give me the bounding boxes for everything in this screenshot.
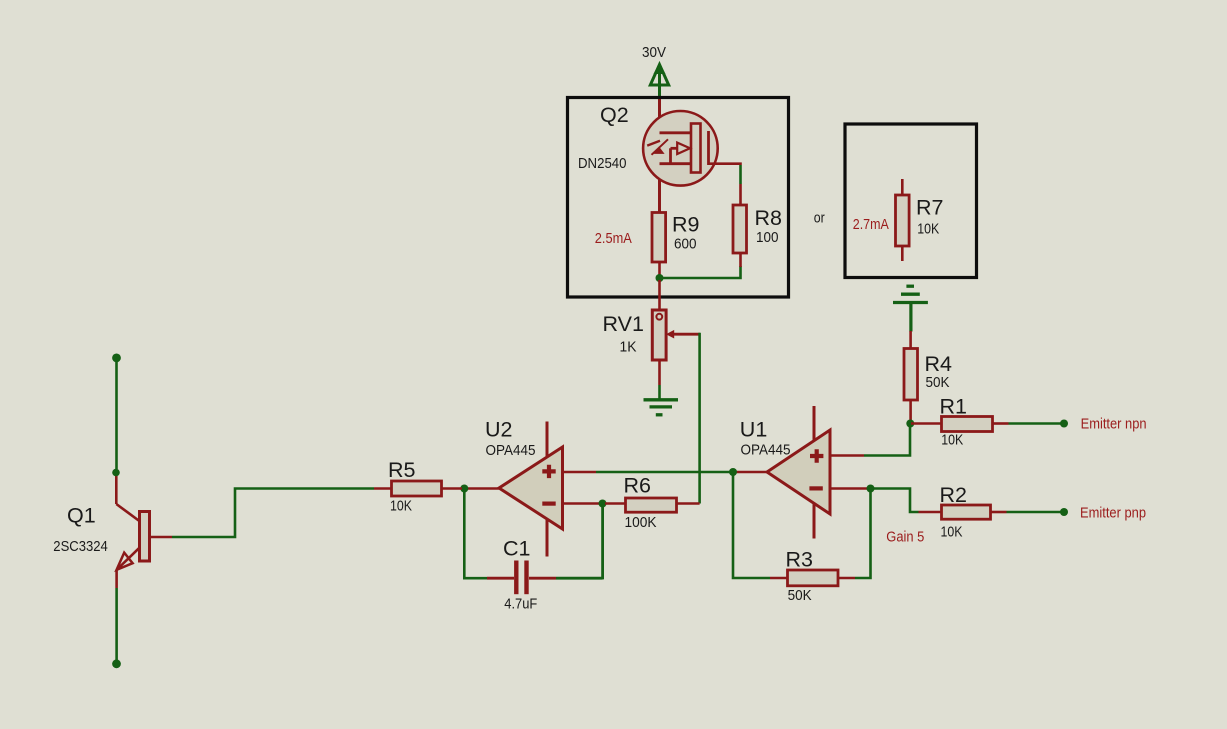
svg-text:50K: 50K [788,587,812,604]
terminal Q1 collector top [112,354,121,363]
label RV1 [603,312,644,336]
svg-text:R6: R6 [624,474,652,498]
resistor R8 [733,205,747,253]
wire R8 top net [739,165,742,184]
label U2 [485,418,512,442]
wire RV1 ground stem [658,385,661,399]
wire R2 right lead [991,511,1007,514]
wire RV1 bottom lead [658,360,661,385]
op-amp U1 [767,406,830,539]
label Emitter npn [1081,416,1147,433]
label 10K R5 [390,498,412,515]
junction Q1 collector node [112,469,120,477]
label Gain 5 [886,529,924,546]
label R1 [940,395,967,419]
wire R4 top lead [909,331,912,349]
wire R1 right lead [993,422,1009,425]
svg-text:Emitter pnp: Emitter pnp [1080,505,1146,522]
svg-text:10K: 10K [917,221,939,238]
svg-text:1K: 1K [620,339,637,356]
junction R9 bottom [656,274,664,282]
label R9 [672,213,699,237]
svg-text:R1: R1 [940,395,967,419]
svg-text:R3: R3 [786,548,814,572]
svg-text:10K: 10K [390,498,412,515]
wire R3 right lead [838,577,855,580]
label R4 [925,352,953,376]
resistor R1 [942,417,993,432]
wire R8 top lead [739,184,742,205]
wiper arrow RV1 [666,330,700,339]
resistor R4 [904,349,918,401]
junction U1 output node [729,468,737,476]
svg-text:OPA445: OPA445 [486,442,536,459]
svg-text:100K: 100K [625,514,657,531]
label 10K R7 [917,221,939,238]
wire R7 bottom lead [901,246,904,261]
wire R1 left lead [911,422,942,425]
label or [814,210,825,227]
label R2 [940,483,967,507]
wire Q1 base to R5 [172,489,374,538]
svg-text:C1: C1 [503,537,530,561]
svg-text:Q2: Q2 [600,103,629,127]
wire R9 to R8 bottom link [660,266,741,278]
resistor R2 [942,505,991,519]
resistor R3 [788,570,839,586]
wire U1 minus to R2 [873,489,919,513]
ground RV1 [644,400,679,415]
svg-text:10K: 10K [941,432,963,449]
label 50K R4 [926,374,950,391]
svg-text:2.5mA: 2.5mA [595,230,632,247]
svg-text:2.7mA: 2.7mA [853,216,889,233]
wire C1 to U2 minus node [556,506,603,579]
label DN2540 [578,155,627,172]
label 100K [625,514,657,531]
svg-text:30V: 30V [642,44,666,61]
wire R3 left lead [770,577,788,580]
resistor R6 [626,498,677,512]
wire U1 plus input stub [830,454,864,457]
potentiometer RV1 [652,310,666,360]
capacitor C1 [516,561,526,595]
svg-text:DN2540: DN2540 [578,155,627,172]
wire C1 right stub [529,577,556,580]
svg-text:Q1: Q1 [67,504,96,528]
junction R4 bottom node [906,420,914,428]
svg-text:R2: R2 [940,483,967,507]
wire R4 bottom lead [909,400,912,420]
label 100 [756,229,779,246]
junction U2 output node [460,485,468,493]
box around Q2 circuit [568,98,789,298]
wire C1 left stub [487,577,514,580]
svg-text:2SC3324: 2SC3324 [53,538,108,555]
resistor R7 [896,195,910,246]
svg-text:R7: R7 [916,196,943,220]
resistor R5 [392,481,442,496]
label R6 [624,474,652,498]
wire R6 left lead [605,502,626,505]
svg-text:R9: R9 [672,213,699,237]
wire R2 left lead [919,511,942,514]
wire U2 plus input stub [563,471,597,474]
wire U1 output to U2 plus net [596,471,731,474]
terminal emitter pnp [1060,508,1068,516]
wire R6 right lead [677,502,700,505]
wire U1 output node down to R3 left [733,474,770,578]
svg-text:OPA445: OPA445 [741,442,791,459]
wire RV1 top lead [658,280,661,309]
label OPA445 U2 [486,442,536,459]
wire Q2 gate lead to R8 [709,162,742,165]
svg-text:50K: 50K [926,374,950,391]
box around R7 [845,124,977,278]
wire U1 minus node down to R3 [855,491,871,578]
junction U2 minus node [599,500,607,508]
ground below R7 box [893,286,928,302]
label 600 [674,236,697,253]
terminal emitter npn [1060,420,1068,428]
label Q2 [600,103,629,127]
transistor Q2 internal mosfet structure [647,124,708,173]
svg-text:R4: R4 [925,352,953,376]
svg-text:U1: U1 [740,418,767,442]
wire R5 right lead [442,487,463,490]
wire U1 minus input stub [830,487,867,490]
label 4.7uF [504,596,537,613]
svg-text:100: 100 [756,229,779,246]
wire Q2 drain lead vertical [658,99,661,214]
label OPA445 U1 [741,442,791,459]
label R5 [388,458,416,482]
svg-text:Emitter npn: Emitter npn [1081,416,1147,433]
wire Q1 base lead [150,536,172,539]
label C1 [503,537,530,561]
label 50K R3 [788,587,812,604]
svg-text:RV1: RV1 [603,312,644,336]
label Q1 [67,504,96,528]
transistor Q2 body circle [643,111,718,186]
label R7 [916,196,943,220]
label 10K R1 [941,432,963,449]
label 10K R2 [941,524,963,541]
power symbol 30V arrow [650,64,668,99]
svg-text:R8: R8 [755,206,783,230]
svg-text:4.7uF: 4.7uF [504,596,537,613]
label R8 [755,206,783,230]
wire Q1 emitter net [115,588,118,663]
label 2.7mA [853,216,889,233]
wire 30V stem [658,85,661,99]
svg-text:R5: R5 [388,458,416,482]
label 1K [620,339,637,356]
resistor R9 [652,213,666,263]
svg-text:U2: U2 [485,418,512,442]
svg-text:or: or [814,210,825,227]
label R3 [786,548,814,572]
wire U2 output node down to C1 [464,491,487,578]
node 30V label [642,44,666,61]
wire U1 output stub [736,471,767,474]
wire R4 node to U1 plus input [864,426,910,456]
wire ground to R4 net [909,303,912,332]
label 2SC3324 [53,538,108,555]
wire R1 to emitter npn terminal [1009,422,1062,425]
svg-text:10K: 10K [941,524,963,541]
wire R8 bottom lead [739,253,742,267]
junction U1 minus node [867,485,875,493]
wire R2 to emitter pnp terminal [1007,511,1062,514]
label 2.5mA [595,230,632,247]
terminal Q1 emitter bottom [112,659,121,668]
wire Q1 collector net [115,358,118,469]
svg-text:Gain 5: Gain 5 [886,529,924,546]
wire RV1 wiper net down to R6 [698,333,701,504]
label U1 [740,418,767,442]
wire R5 left lead [374,487,392,490]
wire U2 minus stub [563,502,601,505]
wire U2 output stub [467,487,499,490]
wire R9 bottom lead [658,262,661,276]
label Emitter pnp [1080,505,1146,522]
transistor Q1 [116,470,149,588]
op-amp U2 [499,422,563,557]
svg-text:600: 600 [674,236,697,253]
wire R7 top lead [901,179,904,195]
